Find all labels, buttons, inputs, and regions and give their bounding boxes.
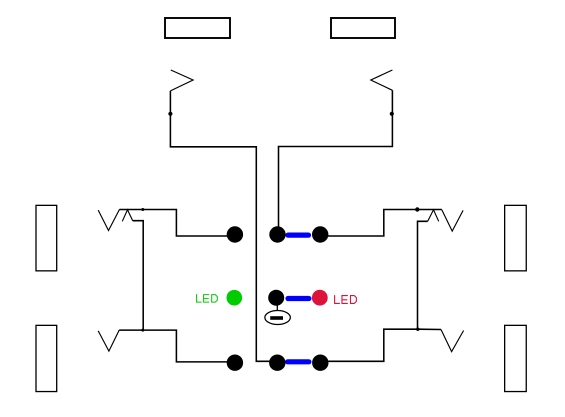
red LED	[312, 290, 328, 306]
box (left-lower battery)	[36, 325, 57, 391]
spring contact V (left-upper)	[98, 209, 119, 230]
green LED	[227, 290, 243, 306]
wire left-upper contact to terminal B1	[120, 210, 237, 237]
label LED (red)	[335, 295, 357, 303]
wire moving contact to vertical (right)	[418, 221, 428, 329]
switch contact SW2 (top-right)	[371, 70, 393, 90]
junction (left-upper)	[141, 208, 144, 211]
moving contact (right-upper)	[428, 210, 439, 222]
label LED (green)	[197, 294, 218, 302]
junction on SW1 wire	[168, 112, 172, 116]
polarity ellipse	[265, 311, 291, 325]
jumper wire (blue, row 1)	[288, 233, 309, 238]
switch contact SW1 (top-left)	[170, 70, 193, 91]
box (top-right bell push outline)	[331, 18, 395, 38]
spring contact V (left-lower)	[98, 330, 119, 351]
terminal C3	[312, 355, 328, 371]
terminal C2	[269, 355, 285, 371]
box (left-upper battery)	[36, 205, 57, 271]
wire SW1 to terminal A2	[170, 91, 276, 361]
wire terminal B3 to right assembly	[320, 210, 442, 237]
polarity stem	[276, 298, 278, 311]
box (right-upper battery)	[505, 205, 527, 271]
junction on SW2 wire	[390, 112, 394, 116]
terminal C1	[227, 355, 243, 371]
spring contact V (right-upper)	[442, 210, 463, 231]
box (top-left bell push outline)	[165, 18, 230, 38]
moving contact (left-upper)	[122, 210, 132, 222]
wire left-lower contact to terminal C1	[119, 330, 236, 362]
terminal A1	[269, 226, 285, 242]
junction (right-upper)	[415, 207, 419, 211]
terminal B3	[312, 226, 328, 242]
minus sign	[270, 316, 283, 320]
wire SW2 to terminal A1	[279, 90, 393, 234]
junction (right-lower)	[416, 328, 419, 331]
terminal A2 (mid row)	[268, 290, 284, 306]
spring contact V (right-lower)	[441, 330, 464, 352]
wire moving contact to vertical (left)	[133, 221, 144, 330]
terminal B1	[227, 226, 243, 242]
junction (left-lower)	[141, 329, 144, 332]
box (right-lower battery)	[505, 325, 527, 391]
wire right-lower junction to terminal C3	[320, 329, 441, 361]
jumper wire (blue, row 3)	[288, 359, 309, 364]
jumper wire (blue, row 2)	[288, 296, 309, 301]
